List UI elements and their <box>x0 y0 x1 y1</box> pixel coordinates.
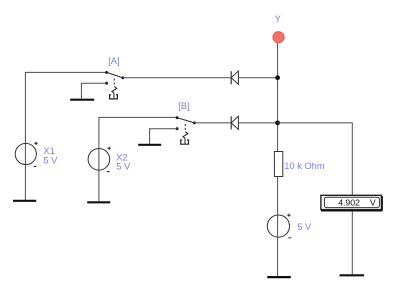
switch SW-B lever <box>177 118 194 123</box>
ground (X2) <box>87 201 110 203</box>
voltage source X2 <box>88 147 111 172</box>
svg-text:5 V: 5 V <box>43 156 58 166</box>
ground (switch A) <box>70 99 94 101</box>
wire X2 riser and run to switch B <box>99 117 177 148</box>
ground (switch B) <box>138 144 161 146</box>
switch SW-B control dashed line <box>184 124 186 132</box>
probe Y <box>273 32 284 43</box>
node junction D1/bus <box>275 75 280 80</box>
switch SW-A control dashed line <box>113 79 115 87</box>
wire switch A lower throw to ground <box>81 83 106 98</box>
diode D1 <box>231 71 238 84</box>
switch SW-A lever <box>107 72 123 77</box>
switch SW-B pole terminal <box>176 116 179 119</box>
svg-text:[B]: [B] <box>178 101 189 111</box>
switch SW-B lower terminal <box>176 127 179 130</box>
switch SW-A key actuator <box>110 87 118 99</box>
wire diode D1 to bus <box>238 77 277 79</box>
svg-text:5 V: 5 V <box>116 161 131 171</box>
voltage source X1 <box>15 142 37 167</box>
ground (V3) <box>267 276 291 278</box>
svg-text:Y: Y <box>275 14 281 24</box>
voltage source V3 <box>267 214 291 238</box>
svg-text:[A]: [A] <box>108 56 119 66</box>
wire X2 bottom to ground <box>98 149 100 202</box>
wire resistor to source V3 <box>277 177 279 216</box>
wire X1 bottom to ground <box>24 144 26 200</box>
switch SW-A lower terminal <box>105 82 108 85</box>
node junction D2/bus/meter <box>275 120 280 125</box>
ground (voltmeter) <box>340 274 365 276</box>
voltmeter VM1 body <box>321 195 382 210</box>
wire X1 riser and top run to switch A <box>25 72 106 143</box>
wire source V3 to ground <box>277 215 279 276</box>
svg-text:5 V: 5 V <box>297 222 312 232</box>
resistor R1 <box>274 152 282 177</box>
switch SW-B key actuator <box>181 132 189 144</box>
wire switch A to diode D1 <box>123 77 231 79</box>
wire node to voltmeter branch <box>278 123 353 274</box>
wire output bus <box>277 43 279 151</box>
wire switch B lower throw to ground <box>150 129 178 144</box>
switch SW-A throw terminal <box>121 76 124 79</box>
switch SW-A pole terminal <box>105 71 108 74</box>
ground (X1) <box>13 200 36 202</box>
wire diode D2 to bus <box>238 122 277 124</box>
svg-text:V: V <box>370 197 376 207</box>
svg-text:10 k Ohm: 10 k Ohm <box>284 161 325 171</box>
diode D2 <box>231 116 238 129</box>
svg-text:X1: X1 <box>43 146 54 156</box>
svg-text:4.902: 4.902 <box>338 197 360 207</box>
switch SW-B throw terminal <box>193 122 196 125</box>
wire switch B to diode D2 <box>194 122 231 124</box>
